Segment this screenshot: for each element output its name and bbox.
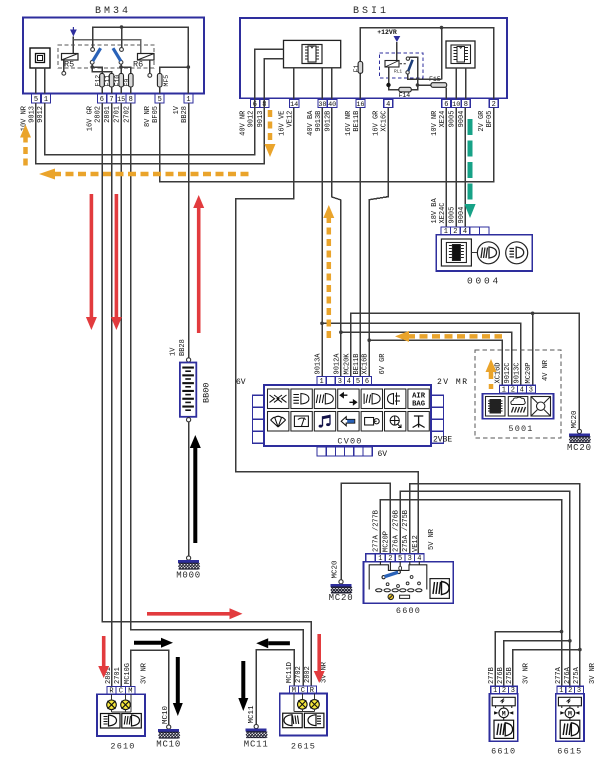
wire fuse MF5 to pin 5 <box>159 87 161 94</box>
junction F15 tap <box>416 83 420 87</box>
wire right switch from top bus <box>121 27 123 48</box>
component 6615 foglamp right box <box>556 694 584 741</box>
wire net 2801 <box>111 103 113 686</box>
orange arrow left at XC16 <box>395 331 502 342</box>
svg-text:F14: F14 <box>399 92 411 99</box>
component BM34 control unit box <box>23 18 204 94</box>
icon sun in 5001 <box>531 397 551 417</box>
icon AIR BAG text <box>408 389 429 409</box>
pin 14 of BSI1 <box>289 100 299 110</box>
svg-text:MC11D: MC11D <box>286 662 294 683</box>
svg-text:MC20: MC20 <box>567 443 592 453</box>
terminal circle R5 <box>62 71 66 75</box>
small contacts in 6600 <box>386 583 389 586</box>
svg-text:1V: 1V <box>173 105 181 114</box>
pin 38 of BSI1 <box>318 100 327 110</box>
wire net 2702 <box>131 103 303 686</box>
pin 3 of CV00 <box>335 376 344 386</box>
wire MC20 branch to 5001 pin 3 <box>532 313 534 385</box>
CV00 right connector <box>431 395 444 407</box>
svg-text:R5: R5 <box>64 60 74 70</box>
svg-text:M: M <box>502 711 506 718</box>
red arrow down at 2801 <box>111 194 122 330</box>
svg-text:6600: 6600 <box>396 606 421 616</box>
icon rear wiper <box>291 412 312 432</box>
wire fuse F9 to pin <box>130 87 132 94</box>
svg-text:3V NR: 3V NR <box>589 662 597 684</box>
wire 9013 branch to 5001 pin 4 <box>322 323 521 385</box>
wire net 9012B BSI to CV00 pin3 <box>332 108 341 377</box>
svg-text:MC10G: MC10G <box>124 663 132 684</box>
relay switch contact bottom <box>406 71 409 74</box>
pin 3 of 6610 <box>508 686 517 695</box>
svg-text:6610: 6610 <box>491 747 516 757</box>
wire fuse F10 to pin <box>120 87 122 94</box>
wire F14 to switch-arm vertical <box>410 57 418 89</box>
component 2615 headlight right box <box>280 694 327 736</box>
pin 1 of BM34 (BB28) <box>184 94 193 104</box>
resistor in 6600 <box>400 595 410 598</box>
icon rear fog <box>361 389 382 409</box>
svg-text:9005: 9005 <box>449 207 457 224</box>
icon turn signals <box>338 389 359 409</box>
svg-text:F10: F10 <box>114 75 121 87</box>
pin blank b of 0004 <box>479 227 489 235</box>
red arrow down at 2802 <box>86 194 97 330</box>
svg-text:276A /276B: 276A /276B <box>392 510 400 552</box>
lamp circle fog in 0004 <box>477 242 499 264</box>
wire supply to relay R5 coil <box>72 37 74 55</box>
pin M of 2610 <box>126 687 135 696</box>
svg-text:40V BA: 40V BA <box>307 110 315 136</box>
wire left switch branch to fuse F11 <box>92 67 111 73</box>
ground M000 <box>178 556 200 569</box>
pin stubs into 6600 <box>380 562 419 571</box>
wire net 9012 BM34 to BSI <box>45 100 255 155</box>
wire net BE11B BSI to CV00 pin5 <box>359 108 361 377</box>
pin 5 of 6600 <box>395 554 405 563</box>
switch outline in 6600 <box>369 565 427 590</box>
green arrow down at 9004 <box>464 119 475 218</box>
pin blank of 6600 <box>366 554 376 562</box>
component 2610 headlight left box <box>97 694 145 736</box>
wire 9012 branch to 5001 pin 2 <box>341 332 512 385</box>
svg-text:MC10: MC10 <box>162 705 170 724</box>
icon IC in 5001 <box>486 397 506 417</box>
pin 4 of 5001 <box>517 385 526 394</box>
icon headlamp leveling <box>385 389 406 409</box>
svg-text:276B: 276B <box>497 667 505 684</box>
pin 1 of BM34 <box>42 94 51 104</box>
svg-text:9013A: 9013A <box>315 353 323 375</box>
pin 1 of CV00 <box>317 376 326 386</box>
svg-text:F9: F9 <box>123 79 130 87</box>
svg-text:2701: 2701 <box>114 667 122 684</box>
orange arrow down at VE12 <box>265 110 276 157</box>
svg-text:XE24C: XE24C <box>439 202 447 223</box>
svg-text:275B: 275B <box>506 667 514 684</box>
pin 8 of BSI1 <box>260 100 269 110</box>
relay RL1 dashed box <box>380 53 423 78</box>
fuse F9 <box>129 74 134 88</box>
supply arrow inside BM34 <box>70 27 77 37</box>
svg-text:5V NR: 5V NR <box>428 528 436 550</box>
wire right switch to fuse F10 <box>120 64 122 73</box>
svg-text:9004: 9004 <box>458 207 466 224</box>
link line in 0004 <box>471 251 477 253</box>
svg-text:2610: 2610 <box>110 742 135 752</box>
wire net 2701 <box>120 103 122 686</box>
svg-text:BB28: BB28 <box>179 339 187 356</box>
wire fuse F12 to pin <box>101 87 103 94</box>
svg-text:9013C: 9013C <box>513 362 521 383</box>
icon fog in 2615 <box>283 713 303 728</box>
relay switch arm (blue) <box>408 60 412 71</box>
orange arrow up at 9013 <box>20 125 31 167</box>
wire connector to pin 5 <box>35 68 37 94</box>
lamp circle low beam in 0004 <box>506 242 528 264</box>
svg-text:6V: 6V <box>236 378 246 387</box>
svg-text:40V NR: 40V NR <box>239 110 247 136</box>
svg-text:MF5: MF5 <box>163 75 170 87</box>
switch arm right (blue) <box>113 48 121 61</box>
wire +12VR to relay coil <box>396 42 398 60</box>
pin 15 of BM34 <box>117 94 126 104</box>
wire switch bottom to bus <box>408 74 442 79</box>
wire net VE12 BSI to 6600 <box>236 108 418 554</box>
icon fog in 2610 <box>122 714 142 729</box>
svg-text:2802: 2802 <box>304 666 312 683</box>
svg-text:F1: F1 <box>353 65 360 73</box>
wire IC to pin 40 <box>331 68 333 100</box>
black arrow right at MC10 <box>134 638 173 648</box>
junction 275 to 6610 <box>578 648 582 652</box>
fuse F12 <box>100 74 105 88</box>
relay R5 coil <box>62 54 79 61</box>
svg-text:6V GR: 6V GR <box>379 353 387 375</box>
node relay coil bottom <box>386 83 390 87</box>
switch lever contact left <box>382 576 385 579</box>
wire bulbs in 2610 <box>112 694 131 712</box>
svg-text:275A: 275A <box>573 666 581 684</box>
wire branch to fuse MF5 <box>160 67 189 73</box>
junction 9013 branch <box>320 322 324 326</box>
svg-text:1V: 1V <box>170 347 178 356</box>
icon washer jets <box>268 389 289 409</box>
fuse F11 <box>109 74 114 88</box>
connector symbol inside BM34 <box>30 48 50 68</box>
svg-text:RL1: RL1 <box>394 69 402 75</box>
svg-text:MC20P: MC20P <box>383 531 391 552</box>
wire net MC10G 2610 pin M to ground MC10 <box>131 650 169 725</box>
ground MC20 left <box>331 580 353 593</box>
svg-text:275A /275B: 275A /275B <box>402 510 410 552</box>
svg-text:BAG: BAG <box>412 400 425 408</box>
wire net MC20K CV00 pin4 to ground MC20 <box>351 313 580 429</box>
pin 2 of 6615 <box>566 686 575 695</box>
pin 3 of 5001 <box>526 385 535 394</box>
junction XC16 branch <box>367 338 371 342</box>
pin 1 of 0004 <box>441 227 451 236</box>
supply arrow +12VR <box>394 36 401 42</box>
wire net MC20P 6600 to ground <box>341 483 390 580</box>
wire net XC16C BSI to CV00 pin6 <box>369 108 388 377</box>
bulb symbols in 2610 <box>107 700 117 710</box>
pin 3 of 6600 <box>405 554 415 563</box>
svg-text:M000: M000 <box>176 571 201 581</box>
fog icon box in 6600 <box>430 579 449 599</box>
svg-text:2VBE: 2VBE <box>433 436 452 445</box>
svg-text:BM34: BM34 <box>95 6 131 17</box>
wire IC to pin 14 <box>293 68 295 100</box>
svg-text:XC16B: XC16B <box>362 353 370 374</box>
component BSI1 box <box>240 18 507 98</box>
pin 6 of CV00 <box>363 376 372 386</box>
pin 16 of BSI1 <box>356 100 365 110</box>
icon circled cross <box>385 412 406 432</box>
IC symbol in 0004 <box>441 239 471 266</box>
svg-text:MC11: MC11 <box>248 705 256 724</box>
pin 5 of BM34 <box>32 94 41 104</box>
pin 8 of BM34 <box>126 94 135 104</box>
wire U2 to pin 10 <box>455 68 457 100</box>
ground MC20 right <box>569 429 591 442</box>
pin 10 of BSI1 <box>452 100 462 110</box>
CV00 left connector <box>253 395 265 407</box>
pin 5 of CV00 <box>353 376 362 386</box>
wire F15 left lead <box>418 84 431 86</box>
pin 4 of BSI1 <box>384 100 393 110</box>
dashed box around relays R5 R6 <box>58 45 154 68</box>
svg-text:MC11: MC11 <box>244 740 269 750</box>
CV00 bottom connector <box>317 447 326 456</box>
pin 3 of 6615 <box>575 686 584 695</box>
pin 4 of CV00 <box>344 376 353 386</box>
pin 2 of 5001 <box>508 385 517 394</box>
icon front fog <box>314 389 335 409</box>
svg-text:BB00: BB00 <box>202 383 212 403</box>
svg-text:F12: F12 <box>95 75 102 87</box>
wire BSI pin 8 to IC <box>264 59 283 100</box>
component 6600 fog switch box <box>364 562 454 604</box>
wire net 275 6600 to lamps <box>410 484 580 686</box>
wire R6 coil to terminal <box>149 61 151 74</box>
red arrow down at 2610 <box>98 636 109 678</box>
svg-text:CV00: CV00 <box>337 437 362 447</box>
svg-text:XC16D: XC16D <box>495 362 503 383</box>
svg-text:16V NR: 16V NR <box>345 110 353 136</box>
svg-text:9012C: 9012C <box>504 362 512 383</box>
wire top bus drop to switch <box>441 28 443 80</box>
wire BSI pin 6 to IC <box>255 49 284 99</box>
svg-text:8V NR: 8V NR <box>144 105 152 127</box>
wire net 277 6600 to lamps <box>380 500 561 686</box>
wire net 276 6600 to lamps <box>400 491 570 686</box>
switch arm left (blue) <box>93 48 101 61</box>
svg-text:277B: 277B <box>488 667 496 684</box>
pin 2 of 6600 <box>385 554 395 563</box>
svg-text:10V NR: 10V NR <box>431 110 439 136</box>
wire XC16 branch to 5001 pin 1 <box>369 340 502 385</box>
pin 6 of BM34 <box>97 94 106 104</box>
component 6610 foglamp left box <box>490 694 518 741</box>
pin 6 of BSI1 (XE24) <box>442 100 451 110</box>
svg-text:4V NR: 4V NR <box>542 359 550 381</box>
svg-text:6V: 6V <box>378 450 388 459</box>
black arrow up at M000 <box>190 435 201 543</box>
pin 2 of 6610 <box>500 686 509 695</box>
fuse F1 <box>358 62 363 74</box>
pin 2 of 0004 <box>451 227 461 236</box>
icon door open <box>361 412 382 432</box>
svg-text:3V NR: 3V NR <box>522 662 530 684</box>
battery BB00 <box>180 358 196 422</box>
switch contact right top <box>120 48 124 52</box>
component 5001 dashed box <box>475 350 561 438</box>
pin C of 2615 <box>298 686 307 695</box>
svg-text:276A: 276A <box>564 666 572 684</box>
svg-text:0004: 0004 <box>467 276 501 287</box>
pin 4 of 0004 <box>460 227 470 236</box>
wire net 9004 BSI to 0004 pin 4 <box>464 108 466 227</box>
wire net 9013B BSI to CV00 pin1 <box>321 108 323 377</box>
pin 40 of BSI1 <box>327 100 337 110</box>
svg-text:16V GR: 16V GR <box>373 110 381 136</box>
junction 9012 branch <box>339 330 343 334</box>
junction 277 to 6610 <box>560 630 564 634</box>
svg-text:16V GR: 16V GR <box>87 105 95 131</box>
wire 275B branch to 6610 pin 3 <box>513 650 580 686</box>
wire 277B branch to 6610 pin 1 <box>495 632 561 686</box>
icon low beam in 2615 <box>304 713 324 728</box>
svg-text:277A /277B: 277A /277B <box>372 510 380 552</box>
black arrow down at MC11 <box>238 661 248 711</box>
bulb symbol crossed in 6600 <box>388 594 394 600</box>
svg-text:3V NR: 3V NR <box>140 662 148 684</box>
terminal circle R6 <box>148 74 152 78</box>
svg-text:BE11B: BE11B <box>353 353 361 374</box>
junction top bus <box>440 26 444 30</box>
wire net BB28 lower to M000 <box>188 422 190 556</box>
fuse F10 <box>119 74 124 88</box>
svg-text:16V VE: 16V VE <box>278 111 286 136</box>
svg-text:M: M <box>568 711 572 718</box>
fuse F14 <box>399 87 412 92</box>
svg-text:BSI1: BSI1 <box>353 6 389 17</box>
orange arrow up in 5001 <box>486 359 497 389</box>
component CV00 column switch box <box>264 385 431 446</box>
pin R of 2615 <box>307 686 316 695</box>
pin R of 2610 <box>107 687 116 696</box>
black arrow down at MC10 <box>173 657 183 716</box>
icon windshield wiper <box>268 412 289 432</box>
junction right switch branch <box>119 65 123 69</box>
icon horn music note <box>314 412 335 432</box>
pin 1 of 6610 <box>491 686 500 695</box>
mech link dashes <box>400 63 407 65</box>
svg-text:VE12: VE12 <box>412 535 420 552</box>
svg-text:MC20P: MC20P <box>525 362 533 383</box>
icon low beam in 2610 <box>101 714 121 729</box>
switch contact left bottom <box>90 60 94 64</box>
svg-text:277A: 277A <box>555 666 563 684</box>
pin 7 of BM34 <box>107 94 116 104</box>
wire net 2802 <box>102 103 311 686</box>
svg-text:MC20: MC20 <box>329 593 354 603</box>
IC module U2 in BSI1 <box>446 41 475 68</box>
svg-text:MC20: MC20 <box>571 410 579 429</box>
red arrow up at BB28 <box>193 195 204 333</box>
wire net BF05 BM34 to BSI <box>160 103 494 182</box>
svg-text:2615: 2615 <box>291 742 316 752</box>
wire net XE24 BSI to 0004 pin 1 <box>445 108 447 227</box>
svg-text:10V NR: 10V NR <box>20 105 28 131</box>
wire net 9005 BSI to 0004 pin 2 <box>455 108 457 227</box>
svg-text:MC10: MC10 <box>156 740 181 750</box>
red arrow down at 2615 <box>314 634 325 683</box>
relay R6 coil <box>138 54 155 61</box>
pin 5 of BM34 (MF5) <box>155 94 164 104</box>
svg-text:18V BA: 18V BA <box>431 197 439 223</box>
IC module U1 in BSI1 <box>284 40 341 67</box>
pin M of 2615 <box>289 686 298 695</box>
wire connector to pin 1 <box>44 68 46 94</box>
wire net 9013 BM34 to BSI <box>36 100 265 164</box>
switch contact right bottom <box>119 60 123 64</box>
svg-text:MC20: MC20 <box>332 560 340 579</box>
red arrow right above 2802 run <box>147 608 243 619</box>
junction BB28 to MF5 branch <box>187 65 191 69</box>
fuse MF5 <box>157 74 162 88</box>
black arrow left at MC11 <box>256 638 290 648</box>
contact stub pin5 <box>399 566 402 570</box>
svg-text:+12VR: +12VR <box>377 29 397 36</box>
junction 276 to 6610 <box>568 639 572 643</box>
wire relay coil to F14 <box>389 68 399 90</box>
component 0004 headlamp module box <box>436 235 532 271</box>
svg-text:2V GR: 2V GR <box>478 110 486 132</box>
junction top bus to right switch <box>120 25 124 29</box>
svg-text:5001: 5001 <box>508 424 533 434</box>
icon rain in 5001 <box>508 397 528 417</box>
icon car direction <box>338 412 359 432</box>
wire BE11B bus top <box>359 73 361 99</box>
wire supply branch to relay R6 coil <box>73 40 140 55</box>
switch contact left top <box>91 48 95 52</box>
icon low beam <box>291 389 312 409</box>
switch lever contact right <box>397 570 400 573</box>
orange arrow up at 9012B <box>323 205 334 343</box>
relay switch contact top <box>406 57 409 60</box>
pin 6 of BSI1 <box>250 100 259 110</box>
wire fuse F11 to pin <box>111 87 113 94</box>
orange arrow left horizontal bus <box>39 169 253 180</box>
svg-text:MC20K: MC20K <box>343 353 351 375</box>
wire R5 coil to terminal <box>63 61 65 72</box>
pin C of 2610 <box>116 687 125 696</box>
component 5001 rain-light sensor box <box>483 394 554 419</box>
pin blank of CV00 <box>326 376 335 384</box>
wire F15 to pin 6 XE24 <box>445 87 447 99</box>
wire net MC11D 2615 pin M to ground MC11 <box>256 650 294 724</box>
svg-text:2702: 2702 <box>295 666 303 683</box>
pin 1 of 5001 <box>499 385 508 394</box>
pin 1 of 6615 <box>557 686 566 695</box>
svg-text:R6: R6 <box>133 60 143 70</box>
pin 1 of 6600 <box>375 554 385 563</box>
pin 2 of BSI1 <box>489 100 498 110</box>
junction left switch branch <box>90 65 94 69</box>
